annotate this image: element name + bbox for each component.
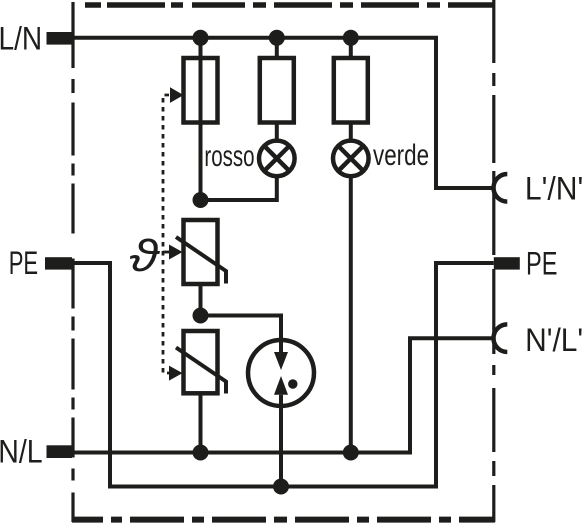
svg-text:rosso: rosso — [204, 140, 254, 173]
terminal N/L — [47, 445, 73, 458]
fuse F1 thermal disconnector — [184, 58, 218, 123]
lamp verde — [333, 141, 369, 177]
svg-text:ϑ: ϑ — [129, 231, 160, 281]
thermal monitoring dashed line — [163, 95, 178, 373]
wire fuse branch vertical — [199, 38, 203, 200]
wire varistor RV2 to N/L bus — [199, 393, 203, 452]
resistor rosso branch — [260, 58, 294, 123]
thermal arrow to fuse — [170, 87, 184, 103]
wire PE bus — [73, 263, 494, 487]
node L/N bus fuse branch — [193, 30, 209, 46]
enclosure boundary bottom — [72, 517, 495, 523]
wire verde branch vertical — [349, 38, 353, 141]
svg-text:N/L: N/L — [0, 435, 43, 470]
svg-text:N'/L': N'/L' — [525, 322, 583, 358]
varistor RV1 — [184, 220, 218, 284]
node L/N bus verde branch — [343, 30, 359, 46]
terminal PE left — [45, 257, 72, 269]
node A junction dot — [193, 192, 209, 208]
wire node B to spark gap — [201, 316, 282, 353]
node fuse branch on N/L bus — [193, 445, 209, 461]
lamp rosso — [259, 141, 295, 177]
wire varistor RV1 to node B — [199, 284, 203, 316]
svg-text:PE: PE — [526, 246, 557, 281]
node PE junction dot — [273, 479, 289, 495]
thermal arrow to RV2 — [169, 366, 183, 381]
svg-text:PE: PE — [9, 245, 38, 281]
spark gap gas discharge tube — [248, 340, 314, 406]
resistor verde branch — [334, 58, 368, 123]
enclosure boundary right — [492, 0, 495, 522]
wire L/N top bus to L'/N' output — [72, 38, 493, 188]
wire rosso branch vertical — [275, 38, 279, 141]
svg-text:verde: verde — [373, 138, 429, 172]
thermal arrow to RV1 — [169, 245, 183, 260]
wire rosso lamp to node A — [201, 176, 277, 200]
wire verde lamp to N/L bus — [349, 176, 353, 452]
connector socket L'/N' — [494, 174, 508, 202]
terminal L/N — [47, 32, 73, 45]
svg-text:L'/N': L'/N' — [525, 170, 583, 206]
varistor RV2 — [184, 331, 218, 393]
connector socket N'/L' — [494, 324, 508, 352]
terminal PE right — [494, 257, 520, 269]
wire N/L bus to N'/L' output — [72, 338, 493, 452]
node verde branch on N/L bus — [343, 445, 359, 461]
wire spark gap to PE bus — [279, 395, 283, 487]
enclosure boundary left — [71, 2, 74, 522]
node L/N bus rosso branch — [269, 30, 285, 46]
enclosure boundary top — [72, 2, 495, 8]
node B junction dot — [193, 308, 209, 324]
svg-text:L/N: L/N — [0, 22, 42, 57]
